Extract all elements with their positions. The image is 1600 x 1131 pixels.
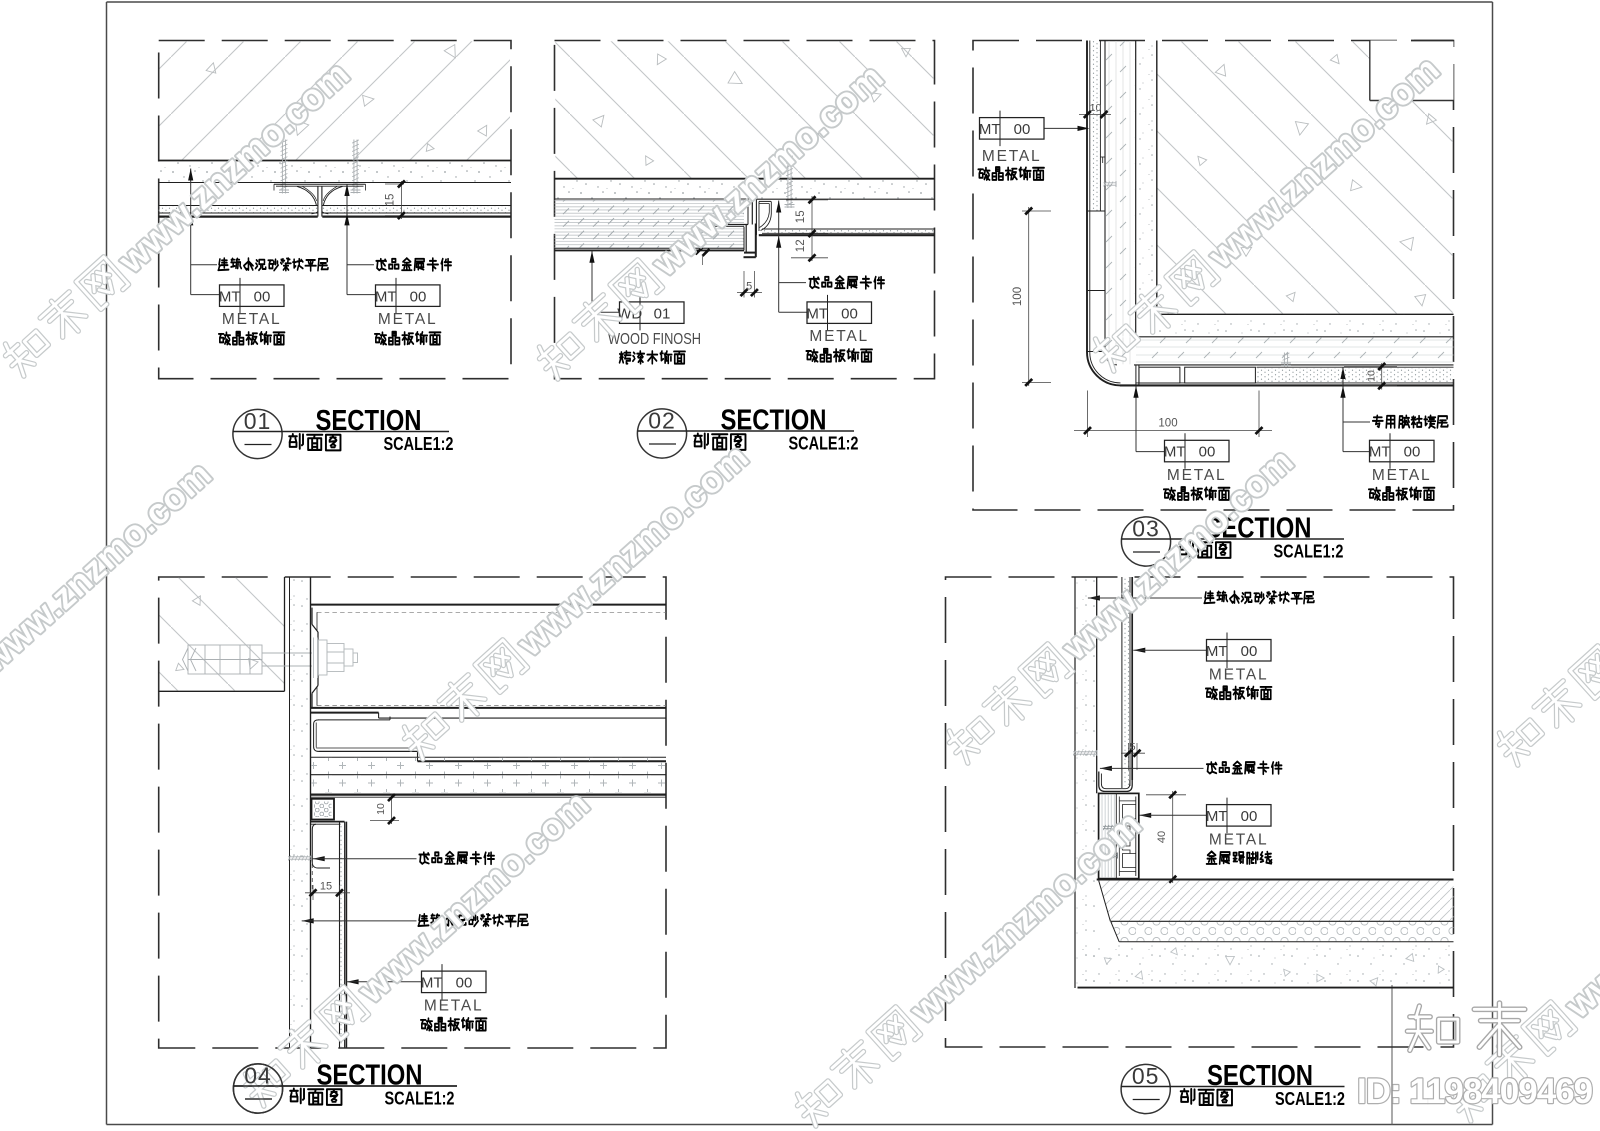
- tag box WD01 02: [620, 302, 685, 324]
- svg-text:5: 5: [746, 281, 752, 293]
- svg-text:00: 00: [841, 305, 858, 322]
- svg-text:SCALE1:2: SCALE1:2: [385, 1088, 455, 1109]
- znzmo logo: [1407, 1006, 1457, 1050]
- dim 5 (gap) 02: [743, 271, 745, 298]
- metal panel right 02: [752, 198, 934, 200]
- dim 10 right 03: [1344, 366, 1397, 368]
- dim 5 05: [1127, 743, 1129, 770]
- mortar bands with plus 04: [311, 756, 667, 758]
- title 03: [1121, 517, 1170, 566]
- detail 03 boundary: [973, 41, 1454, 511]
- dim 10 04: [370, 820, 399, 822]
- svg-text:00: 00: [254, 288, 271, 305]
- svg-text:SCALE1:2: SCALE1:2: [1274, 541, 1344, 562]
- panel joint T-profile 01: [318, 195, 323, 219]
- small step mark 03: [1100, 156, 1105, 158]
- tag box MT00 02: [807, 302, 872, 324]
- concrete slab hatch 01: [160, 41, 511, 160]
- svg-text:MT: MT: [979, 121, 1001, 138]
- dim 100 horizontal 03: [1087, 391, 1089, 438]
- svg-text:00: 00: [1199, 444, 1216, 461]
- leader: mortar layer label 01: [190, 169, 192, 295]
- svg-text:10: 10: [1090, 102, 1102, 114]
- leader: mortar layer 04: [302, 918, 314, 923]
- sheet frame: [107, 1, 1493, 3]
- title 05: [1121, 1064, 1170, 1113]
- dim 10 top 03: [1079, 113, 1111, 115]
- dim 100 vertical 03: [1022, 210, 1051, 212]
- frame divider: [1391, 985, 1393, 1125]
- leader: panel tag 04: [347, 979, 359, 984]
- svg-text:12: 12: [795, 239, 807, 252]
- vertical panel assembly 03: [1086, 41, 1088, 353]
- svg-text:MT: MT: [1206, 643, 1228, 660]
- concrete corner hatch 03: [1158, 41, 1453, 313]
- svg-text:METAL: METAL: [424, 998, 484, 1015]
- svg-text:METAL: METAL: [1209, 666, 1269, 683]
- plaster leveling bands 03: [1106, 41, 1135, 337]
- horizontal panel assembly 03: [1134, 364, 1454, 366]
- metal channel wrap at wood step 02: [744, 252, 756, 254]
- skirting profile 05: [1099, 793, 1139, 878]
- svg-text:METAL: METAL: [1372, 467, 1432, 484]
- metal panel 01: [159, 182, 511, 184]
- detail 02 boundary: [555, 41, 935, 379]
- leader: bottom MT 03: [1135, 386, 1137, 452]
- svg-text:03: 03: [1132, 516, 1160, 542]
- lower C-channel 04: [311, 712, 379, 714]
- svg-text:00: 00: [1241, 643, 1258, 660]
- svg-text:MT: MT: [219, 288, 241, 305]
- svg-text:04: 04: [244, 1063, 272, 1089]
- adhesive layer leader 03: [1342, 367, 1344, 452]
- svg-text:100: 100: [1012, 287, 1024, 306]
- honeycomb backer block 04: [312, 799, 335, 820]
- svg-text:15: 15: [795, 210, 807, 223]
- svg-text:00: 00: [1241, 808, 1258, 825]
- anchor bolt in block 04: [183, 645, 313, 674]
- svg-text:SCALE1:2: SCALE1:2: [384, 433, 454, 454]
- svg-text:MT: MT: [1164, 444, 1186, 461]
- mortar bed stipple 01: [159, 161, 511, 182]
- svg-text:10: 10: [375, 803, 387, 815]
- screw fixings 01: [281, 140, 283, 194]
- svg-text:02: 02: [648, 408, 676, 434]
- svg-text:00: 00: [1404, 444, 1421, 461]
- mortar stipple 02: [555, 180, 935, 199]
- wall mortar band 04: [289, 577, 291, 1048]
- leader: metal clip label 02: [778, 201, 780, 313]
- leader: metal clip label 01: [346, 184, 348, 295]
- dim 15/12 02: [786, 199, 828, 201]
- tag box MT00 left 01: [220, 285, 285, 307]
- svg-text:01: 01: [654, 305, 671, 322]
- dim 40 05: [1146, 794, 1186, 796]
- metal J-angle 02: [755, 199, 757, 235]
- bolt + nut 04: [314, 638, 358, 679]
- leader: skirting tag 05: [1139, 813, 1151, 818]
- svg-text:00: 00: [1014, 121, 1031, 138]
- metal clip J-profile 04: [311, 821, 345, 823]
- svg-text:40: 40: [1156, 831, 1168, 843]
- svg-text:METAL: METAL: [1167, 467, 1227, 484]
- svg-text:METAL: METAL: [982, 148, 1042, 165]
- svg-text:15: 15: [320, 881, 332, 893]
- svg-text:00: 00: [410, 288, 427, 305]
- vertical metal panel 05: [1121, 577, 1123, 788]
- svg-text:100: 100: [1158, 418, 1177, 430]
- detail 05 boundary: [946, 577, 1454, 1047]
- panel J-channel bottom 05: [1099, 772, 1132, 792]
- dim 15 04: [312, 885, 314, 900]
- tag box MT00 top-left 03: [1045, 127, 1088, 129]
- vertical metal panel 04: [339, 822, 341, 1048]
- svg-text:01: 01: [244, 408, 272, 434]
- screws 03: [1104, 182, 1117, 184]
- svg-text:MT: MT: [806, 305, 828, 322]
- svg-text:ID: 1198409469: ID: 1198409469: [1357, 1072, 1593, 1111]
- wood finish panel 02: [555, 198, 753, 200]
- detail 04 boundary: [159, 577, 666, 1048]
- svg-text:00: 00: [456, 975, 473, 992]
- leader: metal clip 04: [313, 856, 325, 861]
- slab soffit line: [159, 160, 511, 162]
- svg-text:METAL: METAL: [378, 311, 438, 328]
- leader: panel tag 05: [1133, 648, 1145, 653]
- leader: metal clip 05: [1100, 766, 1112, 771]
- upper C-channel 04: [311, 604, 667, 606]
- concrete block hatch 04: [160, 578, 285, 691]
- notch rectangle top-right 03: [1370, 41, 1454, 101]
- slab soffit line 02: [555, 178, 935, 180]
- small ticks at wood bottom 02: [696, 247, 703, 254]
- corner curve 03: [1087, 352, 1121, 386]
- svg-text:5: 5: [1130, 741, 1136, 753]
- dim 15 (panel thickness) 01: [385, 183, 404, 185]
- svg-text:METAL: METAL: [222, 311, 282, 328]
- tag box MT00 right 01: [376, 285, 441, 307]
- svg-text:MT: MT: [421, 975, 443, 992]
- svg-text:SCALE1:2: SCALE1:2: [789, 433, 859, 454]
- title 01: [233, 409, 282, 458]
- svg-text:SCALE1:2: SCALE1:2: [1275, 1088, 1345, 1109]
- leader: wood finish label 02: [591, 251, 593, 312]
- wood panel step edge 02: [747, 199, 749, 225]
- floor build-up 05: [1097, 879, 1454, 881]
- wall band 05: [1074, 577, 1076, 988]
- svg-text:METAL: METAL: [1209, 831, 1269, 848]
- screw fixing 02: [787, 156, 789, 209]
- wall faces + stipple 03: [1156, 41, 1158, 315]
- svg-text:05: 05: [1132, 1063, 1160, 1089]
- title 02: [637, 409, 686, 458]
- svg-text:MT: MT: [1369, 444, 1391, 461]
- detail 01 boundary: [159, 41, 511, 379]
- svg-text:MT: MT: [375, 288, 397, 305]
- svg-text:15: 15: [385, 194, 397, 207]
- svg-text:WOOD FINOSH: WOOD FINOSH: [608, 331, 701, 348]
- svg-text:METAL: METAL: [809, 328, 869, 345]
- watermark tiles: [0, 52, 357, 382]
- svg-text:MT: MT: [1206, 808, 1228, 825]
- svg-text:10: 10: [1366, 370, 1378, 382]
- leader: mortar layer 05: [1088, 595, 1100, 600]
- title 04 number re-ink: [233, 1064, 282, 1113]
- title 04: [233, 1064, 282, 1113]
- concrete slab hatch 02: [555, 41, 933, 178]
